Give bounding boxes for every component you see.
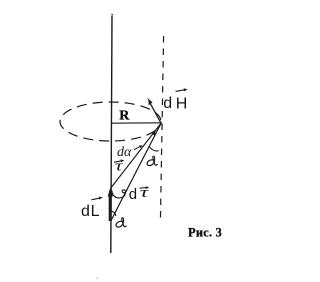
- svg-text:dα: dα: [117, 145, 132, 160]
- svg-text:Рис. 3: Рис. 3: [188, 225, 222, 239]
- svg-text:R: R: [119, 109, 130, 124]
- svg-text:d: d: [81, 203, 90, 220]
- svg-text:L: L: [91, 203, 100, 220]
- svg-text:τ: τ: [115, 158, 123, 174]
- svg-text:H: H: [176, 95, 188, 112]
- svg-text:d: d: [163, 95, 172, 112]
- svg-text:d: d: [129, 186, 137, 203]
- svg-text:τ: τ: [140, 185, 150, 201]
